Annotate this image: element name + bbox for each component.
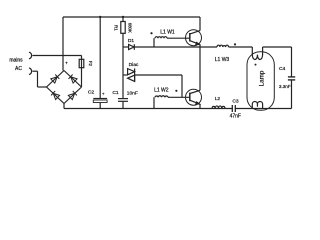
svg-text:L2: L2: [215, 96, 221, 102]
svg-text:680K: 680K: [128, 23, 133, 33]
svg-text:L1 W3: L1 W3: [215, 57, 230, 63]
svg-text:C4: C4: [279, 66, 286, 72]
svg-text:10nF: 10nF: [127, 90, 138, 96]
svg-text:+: +: [102, 91, 105, 96]
svg-text:D1: D1: [128, 38, 134, 44]
svg-text:C3: C3: [232, 98, 239, 104]
svg-text:F2: F2: [88, 61, 93, 67]
svg-text:mains: mains: [9, 57, 23, 63]
svg-text:L1 W2: L1 W2: [154, 88, 169, 94]
svg-text:C2: C2: [88, 90, 95, 96]
svg-text:AC: AC: [15, 66, 22, 72]
svg-text:3.3nF: 3.3nF: [279, 84, 291, 89]
svg-text:C1: C1: [112, 90, 119, 96]
svg-text:47nF: 47nF: [230, 113, 241, 119]
svg-text:Lamp: Lamp: [259, 70, 266, 86]
svg-text:+: +: [65, 61, 68, 66]
svg-text:Diac: Diac: [129, 62, 139, 68]
svg-text:L1 W1: L1 W1: [160, 29, 175, 35]
svg-text:R1: R1: [114, 25, 119, 31]
